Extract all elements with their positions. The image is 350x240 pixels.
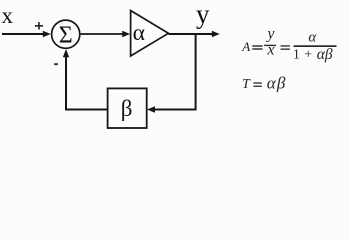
svg-text:Σ: Σ [59,22,73,48]
wire input x to summer [2,33,44,35]
equation A = y/x = alpha/(1+alpha*beta) [241,26,336,63]
equals 1 [252,45,262,46]
svg-text:αβ: αβ [317,46,333,63]
equation T = alpha*beta [242,74,287,93]
svg-text:T: T [242,77,251,92]
svg-text:x: x [266,42,274,59]
block beta box [108,88,147,128]
svg-text:β: β [121,96,133,121]
minus sign at summer feedback input [54,63,58,65]
svg-text:α: α [133,20,145,46]
svg-text:1: 1 [293,48,300,63]
equals 2 [281,45,290,46]
wire summer to amplifier [81,33,124,35]
svg-text:y: y [196,0,210,29]
summing junction [52,20,80,48]
wire feedback left segment from beta box [65,109,108,111]
svg-text:A: A [241,39,250,54]
svg-text:x: x [2,3,14,28]
op-amp amplifier alpha triangle [131,11,169,57]
wire junction drop from output [195,33,197,110]
wire feedback up into summer [65,55,67,111]
svg-text:α: α [308,29,317,45]
wire amplifier to output y [169,33,214,35]
svg-text:αβ: αβ [267,74,287,93]
plus sign at summer input [35,25,43,27]
wire feedback right segment into beta box [153,109,197,111]
svg-text:+: + [304,48,312,63]
svg-text:y: y [266,26,275,43]
